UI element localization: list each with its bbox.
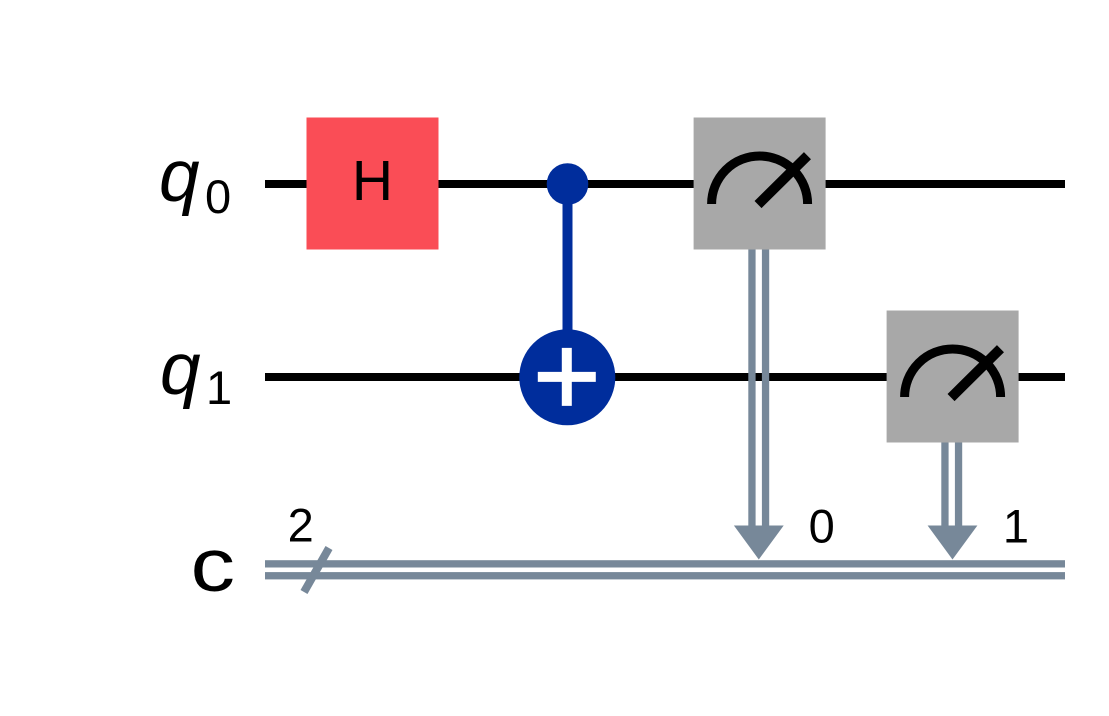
- qubit label q0: [159, 136, 231, 223]
- qubit label q1: [160, 329, 232, 414]
- svg-text:q: q: [160, 329, 201, 410]
- classical bundle slash: [304, 548, 329, 592]
- CNOT target (plus circle) on q1: [519, 329, 615, 425]
- wire q0: [265, 180, 1065, 188]
- classical wire c (double line): [265, 560, 1065, 579]
- svg-text:0: 0: [809, 500, 835, 553]
- classical double wire from measure q1 down to c: [941, 443, 962, 535]
- measure gate on q1: [887, 311, 1019, 443]
- svg-text:1: 1: [206, 361, 232, 414]
- measure gate on q0: [694, 118, 826, 250]
- CNOT control-target connector wire: [563, 184, 573, 377]
- svg-text:2: 2: [288, 499, 314, 552]
- svg-text:1: 1: [1003, 500, 1029, 553]
- svg-text:0: 0: [205, 170, 231, 223]
- wire q1: [265, 373, 1065, 381]
- gate H (Hadamard) on q0: [307, 118, 439, 250]
- classical double wire from measure q0 down to c: [748, 250, 769, 535]
- svg-text:c: c: [191, 523, 236, 607]
- arrowhead into c for measure q1: [928, 526, 978, 560]
- arrowhead into c for measure q0: [734, 526, 784, 560]
- CNOT control dot on q0: [547, 163, 589, 205]
- svg-text:q: q: [159, 136, 200, 217]
- svg-text:H: H: [352, 149, 393, 213]
